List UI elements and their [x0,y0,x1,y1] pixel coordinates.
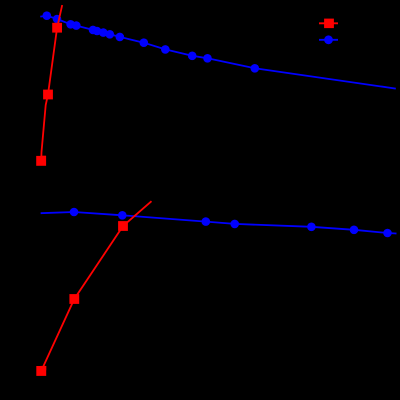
bottom panel: blue series line [41,212,397,234]
bottom panel: blue series markers [70,208,392,238]
top panel: red series markers [36,23,62,166]
bottom panel: red series line [41,201,151,371]
legend: blue entry [319,35,338,44]
bottom panel: red series markers [36,221,128,376]
top panel: blue series line [40,16,396,89]
top panel: blue series markers [43,11,260,72]
legend: red entry [319,19,338,29]
top panel: red series line [41,5,62,161]
